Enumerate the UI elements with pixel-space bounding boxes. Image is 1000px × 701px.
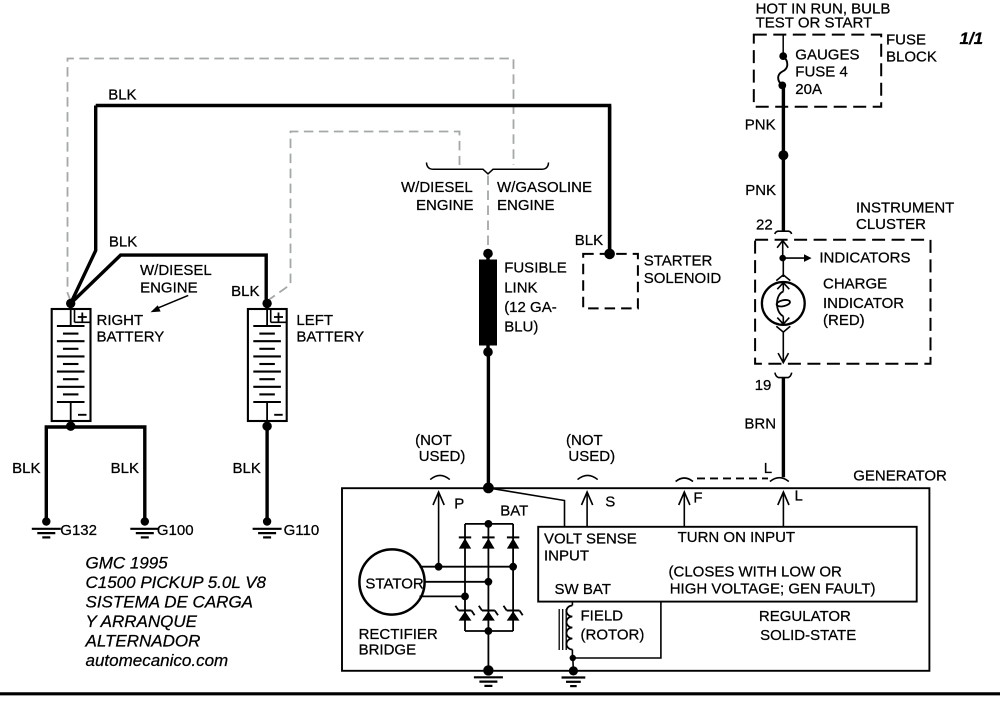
svg-text:W/GASOLINE: W/GASOLINE [497, 179, 592, 196]
svg-text:(RED): (RED) [823, 312, 865, 329]
svg-text:SW BAT: SW BAT [555, 581, 611, 598]
svg-text:(12 GA-: (12 GA- [504, 299, 557, 316]
svg-text:GMC 1995: GMC 1995 [86, 554, 169, 573]
svg-text:19: 19 [755, 377, 772, 394]
svg-text:GAUGES: GAUGES [795, 47, 859, 64]
svg-text:RECTIFIER: RECTIFIER [359, 626, 438, 643]
svg-text:SOLENOID: SOLENOID [644, 270, 722, 287]
svg-text:STATOR: STATOR [365, 575, 424, 592]
svg-text:ALTERNADOR: ALTERNADOR [85, 632, 201, 651]
svg-text:BLOCK: BLOCK [886, 49, 937, 66]
svg-text:automecanico.com: automecanico.com [86, 651, 229, 670]
svg-text:BLK: BLK [231, 283, 259, 300]
svg-text:STARTER: STARTER [644, 252, 713, 269]
svg-text:F: F [693, 489, 702, 506]
svg-text:(ROTOR): (ROTOR) [581, 627, 645, 644]
svg-text:(CLOSES WITH LOW OR: (CLOSES WITH LOW OR [669, 563, 843, 580]
svg-text:ENGINE: ENGINE [416, 197, 474, 214]
svg-text:TEST OR START: TEST OR START [756, 15, 873, 32]
svg-text:(NOT: (NOT [415, 432, 452, 449]
svg-text:L: L [795, 487, 803, 504]
svg-text:BLK: BLK [233, 460, 261, 477]
svg-text:INDICATORS: INDICATORS [819, 249, 910, 266]
svg-text:C1500 PICKUP 5.0L V8: C1500 PICKUP 5.0L V8 [86, 573, 267, 592]
svg-text:TURN ON INPUT: TURN ON INPUT [678, 529, 796, 546]
svg-text:P: P [454, 495, 464, 512]
svg-text:G132: G132 [60, 522, 97, 539]
svg-text:ENGINE: ENGINE [140, 280, 198, 297]
svg-text:L: L [764, 460, 772, 477]
svg-text:BLK: BLK [108, 86, 136, 103]
svg-text:BLK: BLK [575, 232, 603, 249]
svg-text:HIGH VOLTAGE; GEN FAULT): HIGH VOLTAGE; GEN FAULT) [670, 581, 876, 598]
svg-text:BATTERY: BATTERY [97, 329, 165, 346]
svg-text:LEFT: LEFT [296, 312, 333, 329]
svg-text:RIGHT: RIGHT [97, 312, 144, 329]
svg-text:USED): USED) [568, 448, 615, 465]
svg-text:CHARGE: CHARGE [823, 276, 887, 293]
svg-text:REGULATOR: REGULATOR [759, 608, 851, 625]
svg-text:FUSE 4: FUSE 4 [795, 64, 848, 81]
svg-text:PNK: PNK [745, 182, 776, 199]
svg-text:GENERATOR: GENERATOR [853, 468, 947, 485]
svg-text:USED): USED) [419, 448, 466, 465]
svg-text:1/1: 1/1 [960, 29, 984, 48]
svg-text:G100: G100 [157, 522, 194, 539]
svg-text:BLK: BLK [12, 460, 40, 477]
svg-text:BRN: BRN [744, 416, 776, 433]
svg-text:VOLT SENSE: VOLT SENSE [544, 531, 637, 548]
svg-text:FUSE: FUSE [886, 32, 926, 49]
svg-text:INSTRUMENT: INSTRUMENT [856, 200, 954, 217]
svg-text:FUSIBLE: FUSIBLE [504, 260, 567, 277]
svg-text:INDICATOR: INDICATOR [823, 295, 904, 312]
svg-text:CLUSTER: CLUSTER [856, 216, 926, 233]
svg-text:BAT: BAT [500, 502, 528, 519]
svg-text:BLK: BLK [111, 460, 139, 477]
svg-text:Y ARRANQUE: Y ARRANQUE [86, 612, 198, 631]
svg-text:W/DIESEL: W/DIESEL [140, 262, 212, 279]
svg-text:S: S [605, 493, 615, 510]
svg-text:ENGINE: ENGINE [497, 197, 555, 214]
svg-text:BATTERY: BATTERY [296, 329, 364, 346]
svg-text:BLU): BLU) [504, 319, 538, 336]
svg-text:FIELD: FIELD [581, 608, 624, 625]
svg-text:PNK: PNK [745, 116, 776, 133]
svg-text:BRIDGE: BRIDGE [359, 642, 417, 659]
svg-text:G110: G110 [284, 522, 320, 539]
svg-text:20A: 20A [795, 81, 822, 98]
svg-text:(NOT: (NOT [566, 432, 603, 449]
svg-text:22: 22 [756, 216, 773, 233]
svg-text:LINK: LINK [504, 279, 537, 296]
svg-text:INPUT: INPUT [544, 548, 589, 565]
svg-text:W/DIESEL: W/DIESEL [401, 179, 473, 196]
svg-text:SOLID-STATE: SOLID-STATE [760, 627, 856, 644]
svg-text:BLK: BLK [109, 234, 137, 251]
svg-text:SISTEMA DE CARGA: SISTEMA DE CARGA [86, 593, 254, 612]
